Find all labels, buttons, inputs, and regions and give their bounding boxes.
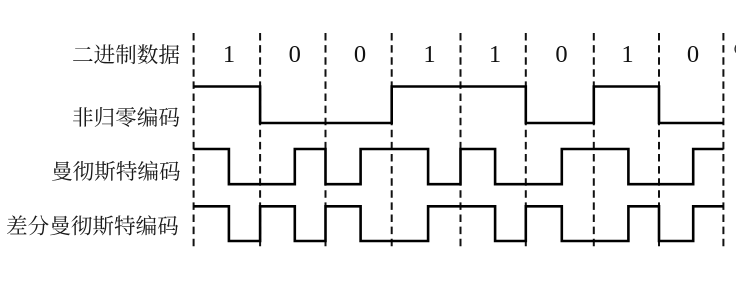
bit-cell boundary dashed line 5	[525, 33, 527, 250]
bit-cell boundary dashed line 1	[259, 33, 261, 250]
svg-text:0: 0	[687, 41, 699, 68]
svg-text:1: 1	[423, 41, 435, 68]
row label: 二进制数据 (binary data)	[73, 44, 179, 64]
bit values row	[223, 41, 699, 68]
bit-cell boundary dashed line 7	[658, 33, 660, 250]
Differential Manchester waveform	[194, 206, 724, 241]
Manchester waveform	[194, 149, 724, 184]
bit-cell boundary dashed line 8	[722, 33, 724, 250]
row label: 非归零编码 (NRZ encoding)	[73, 107, 179, 127]
svg-text:1: 1	[621, 41, 633, 68]
row label: 差分曼彻斯特编码 (Differential Manchester encoding)	[7, 215, 178, 235]
svg-text:1: 1	[489, 41, 501, 68]
svg-text:0: 0	[555, 41, 567, 68]
svg-text:1: 1	[223, 41, 235, 68]
bit-cell boundary dashed line 2	[325, 33, 327, 250]
svg-text:0: 0	[354, 41, 366, 68]
row label: 曼彻斯特编码 (Manchester encoding)	[52, 161, 180, 181]
bit-cell boundary dashed line 3	[391, 33, 393, 250]
cropped character fragment at right edge	[735, 45, 736, 52]
bit-cell boundary dashed line 6	[593, 33, 595, 250]
bit-cell boundary dashed line 0	[193, 33, 195, 250]
bit-cell boundary dashed line 4	[460, 33, 462, 250]
svg-text:0: 0	[289, 41, 301, 68]
NRZ waveform	[194, 87, 724, 124]
